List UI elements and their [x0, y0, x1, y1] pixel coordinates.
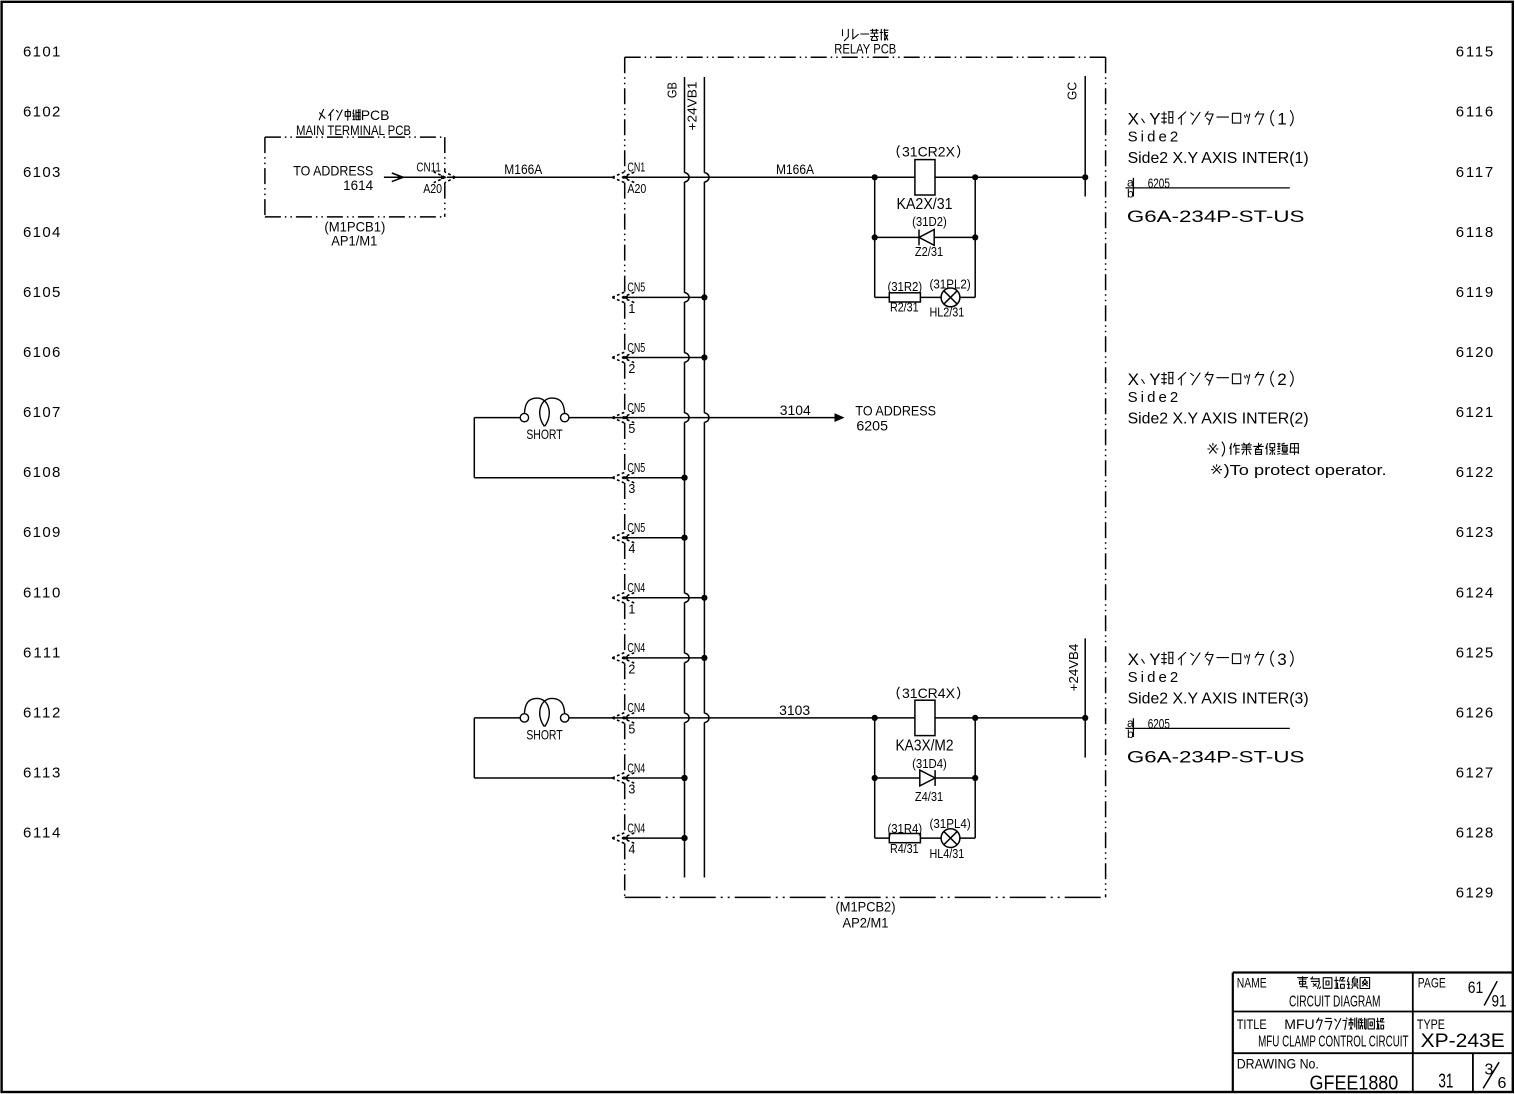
svg-text:5: 5 — [628, 422, 635, 436]
svg-text:Y: Y — [1149, 109, 1160, 128]
svg-text:MFU: MFU — [1284, 1016, 1314, 1032]
svg-text:GC: GC — [1064, 82, 1079, 100]
svg-text:6118: 6118 — [1456, 224, 1493, 241]
svg-text:CN4: CN4 — [627, 761, 645, 775]
wire CN4/1 to +24VB1 — [622, 597, 705, 599]
svg-text:b: b — [1127, 727, 1134, 741]
svg-text:31: 31 — [1438, 1071, 1453, 1093]
svg-text:TO ADDRESS: TO ADDRESS — [293, 162, 373, 178]
jumper SHORT between CN4/5 and CN4/3 — [474, 698, 622, 778]
connector CN5 pin 3 — [612, 461, 645, 496]
svg-text:CN4: CN4 — [627, 701, 645, 715]
svg-text:3: 3 — [628, 482, 635, 496]
svg-text:6205: 6205 — [1148, 716, 1170, 732]
note to protect operator — [1208, 442, 1387, 480]
relay coil U: (31CR2X) KA2X/31 — [897, 144, 960, 214]
wire relay2 branch left — [874, 718, 876, 838]
bus GB — [665, 77, 689, 878]
node row numbers 6101-6114 (left) — [23, 44, 60, 842]
title block TYPE field: XP-243E — [1417, 1016, 1505, 1052]
svg-text:TYPE: TYPE — [1417, 1016, 1445, 1032]
svg-text:2: 2 — [628, 662, 635, 676]
svg-text:6114: 6114 — [23, 825, 60, 842]
svg-text:CIRCUIT DIAGRAM: CIRCUIT DIAGRAM — [1289, 994, 1381, 1011]
svg-text:CN11: CN11 — [416, 161, 440, 175]
svg-text:MFU CLAMP CONTROL CIRCUIT: MFU CLAMP CONTROL CIRCUIT — [1258, 1033, 1409, 1050]
svg-text:1: 1 — [628, 302, 635, 316]
diode (31D2) Z2/31 — [872, 215, 979, 259]
connector CN1/A20 pin on relay PCB — [612, 161, 646, 196]
svg-text:1: 1 — [1277, 109, 1286, 128]
svg-text:6205: 6205 — [856, 418, 888, 434]
title block DRAWING No field: GFEE1880 31 3/6 — [1237, 1056, 1507, 1094]
svg-text:PCB: PCB — [361, 107, 390, 123]
wire 3104 to address 6205 — [622, 402, 843, 421]
svg-text:2: 2 — [628, 362, 635, 376]
svg-text:6119: 6119 — [1456, 284, 1493, 301]
text TO ADDRESS 6205 — [855, 403, 936, 434]
svg-text:6105: 6105 — [23, 284, 60, 301]
lamp (31PL4) HL4/31 — [930, 817, 971, 861]
title block NAME field: 電気回路線図 CIRCUIT DIAGRAM — [1237, 975, 1381, 1011]
connector CN4 pin 3 — [612, 761, 645, 796]
connector CN4 pin 5 — [612, 701, 645, 736]
svg-text:GB: GB — [665, 82, 680, 98]
wire CN5/1 to +24VB1 — [622, 296, 705, 298]
arrow to address 1614 — [384, 173, 441, 182]
svg-text:CN4: CN4 — [627, 581, 645, 595]
diode (31D4) Z4/31 — [872, 757, 979, 804]
wire CN4/4 to GB — [622, 835, 688, 841]
bus +24VB1 — [685, 77, 709, 878]
svg-text:SHORT: SHORT — [526, 426, 563, 442]
svg-text:Side2 X.Y AXIS INTER(3): Side2 X.Y AXIS INTER(3) — [1128, 691, 1309, 708]
svg-text:A20: A20 — [627, 182, 646, 196]
svg-text:)To protect operator.: )To protect operator. — [1224, 462, 1387, 479]
svg-text:6110: 6110 — [23, 584, 60, 601]
svg-text:1: 1 — [628, 602, 635, 616]
label リレー基板 RELAY PCB — [834, 29, 896, 56]
svg-text:TITLE: TITLE — [1237, 1016, 1267, 1032]
relay coil U: (31CR4X) KA3X/M2 — [896, 685, 960, 754]
svg-text:X: X — [1128, 109, 1139, 128]
wire relay1 branch right — [974, 177, 976, 297]
svg-text:Side2: Side2 — [1128, 669, 1179, 686]
svg-text:91: 91 — [1492, 992, 1507, 1011]
svg-text:(M1PCB2): (M1PCB2) — [836, 899, 896, 915]
svg-text:HL4/31: HL4/31 — [930, 847, 965, 861]
svg-text:6107: 6107 — [23, 404, 60, 421]
svg-text:+24VB1: +24VB1 — [685, 82, 700, 131]
connector CN4 pin 2 — [612, 641, 645, 676]
svg-text:6106: 6106 — [23, 344, 60, 361]
svg-text:6124: 6124 — [1456, 584, 1493, 601]
svg-text:(31PL2): (31PL2) — [930, 277, 971, 291]
svg-text:6115: 6115 — [1456, 44, 1493, 61]
svg-text:31CR2X: 31CR2X — [902, 144, 956, 160]
svg-text:CN1: CN1 — [627, 161, 645, 175]
resistor (31R2) R2/31 — [875, 280, 976, 315]
connector CN4 pin 4 — [612, 821, 645, 856]
svg-text:6128: 6128 — [1456, 825, 1493, 842]
svg-text:6120: 6120 — [1456, 344, 1493, 361]
svg-text:(31PL4): (31PL4) — [930, 817, 971, 831]
svg-text:6205: 6205 — [1148, 175, 1170, 191]
svg-text:CN5: CN5 — [627, 461, 645, 475]
svg-text:(31R4): (31R4) — [887, 822, 922, 836]
svg-text:6113: 6113 — [23, 765, 60, 782]
label (M1PCB2) AP2/M1 — [836, 899, 896, 931]
svg-text:M166A: M166A — [504, 161, 543, 177]
svg-text:(31D4): (31D4) — [912, 757, 947, 771]
svg-text:G6A-234P-ST-US: G6A-234P-ST-US — [1127, 207, 1305, 226]
net +24VB4 — [1066, 638, 1088, 757]
svg-text:6112: 6112 — [23, 704, 60, 721]
svg-text:6101: 6101 — [23, 44, 60, 61]
jumper SHORT between CN5/5 and CN5/3 — [474, 398, 622, 478]
svg-text:6123: 6123 — [1456, 524, 1493, 541]
wire relay2 branch right — [974, 718, 976, 838]
svg-text:6122: 6122 — [1456, 464, 1493, 481]
node row numbers 6115-6129 (right) — [1456, 44, 1493, 902]
svg-text:M166A: M166A — [776, 161, 815, 177]
svg-text:61: 61 — [1468, 978, 1484, 997]
svg-text:Z4/31: Z4/31 — [915, 790, 943, 804]
svg-text:6108: 6108 — [23, 464, 60, 481]
relay PCB board outline (M1PCB2) — [625, 57, 1106, 897]
svg-text:b: b — [1127, 186, 1134, 200]
svg-text:31CR4X: 31CR4X — [902, 685, 956, 701]
label メイン中継PCB MAIN TERMINAL PCB — [296, 107, 411, 138]
svg-text:Y: Y — [1149, 370, 1160, 389]
wire CN4/3 to GB — [622, 775, 688, 781]
svg-text:6104: 6104 — [23, 224, 60, 241]
wire relay1 branch left — [874, 177, 876, 297]
wire CN5/4 to GB — [622, 535, 688, 541]
connector CN5 pin 4 — [612, 521, 645, 556]
svg-text:Side2 X.Y AXIS INTER(1): Side2 X.Y AXIS INTER(1) — [1128, 150, 1309, 167]
svg-text:6129: 6129 — [1456, 885, 1493, 902]
svg-text:A20: A20 — [423, 182, 442, 196]
note X,Y axis interlock (2) Side2 — [1128, 370, 1309, 428]
wire M166A — [447, 161, 612, 177]
svg-text:GFEE1880: GFEE1880 — [1310, 1073, 1399, 1094]
svg-text:Side2: Side2 — [1128, 129, 1179, 146]
wire CN5/2 to +24VB1 — [622, 357, 705, 359]
svg-text:6125: 6125 — [1456, 644, 1493, 661]
svg-text:6117: 6117 — [1456, 164, 1493, 181]
svg-text:KA3X/M2: KA3X/M2 — [896, 737, 954, 754]
svg-text:5: 5 — [628, 722, 635, 736]
svg-text:3104: 3104 — [780, 402, 811, 418]
svg-text:X: X — [1128, 370, 1139, 389]
svg-text:CN4: CN4 — [627, 641, 645, 655]
svg-text:4: 4 — [628, 843, 635, 857]
svg-text:(31R2): (31R2) — [887, 280, 922, 294]
svg-text:DRAWING No.: DRAWING No. — [1237, 1056, 1319, 1072]
wire CN4/2 to +24VB1 — [622, 657, 705, 659]
svg-text:MAIN TERMINAL PCB: MAIN TERMINAL PCB — [296, 122, 411, 138]
junction dots — [872, 174, 878, 180]
svg-text:Y: Y — [1149, 650, 1160, 669]
svg-text:AP1/M1: AP1/M1 — [331, 233, 377, 249]
svg-text:PAGE: PAGE — [1418, 975, 1446, 991]
svg-text:RELAY PCB: RELAY PCB — [834, 41, 896, 57]
svg-text:6126: 6126 — [1456, 704, 1493, 721]
note X,Y axis interlock (3) Side2 — [1126, 650, 1309, 767]
svg-text:CN5: CN5 — [627, 521, 645, 535]
svg-text:SHORT: SHORT — [526, 726, 563, 742]
lamp (31PL2) HL2/31 — [930, 277, 971, 319]
svg-text:6116: 6116 — [1456, 104, 1493, 121]
svg-text:3: 3 — [1484, 1061, 1493, 1078]
svg-text:AP2/M1: AP2/M1 — [843, 915, 889, 931]
svg-text:1614: 1614 — [343, 177, 373, 193]
connector CN5 pin 2 — [612, 341, 645, 376]
svg-text:6127: 6127 — [1456, 765, 1493, 782]
svg-text:Side2: Side2 — [1128, 389, 1179, 406]
title block PAGE field: 61/91 — [1418, 975, 1507, 1011]
wire M166A inside relay pcb — [622, 161, 1085, 180]
svg-text:(31D2): (31D2) — [912, 215, 947, 229]
title block — [1233, 973, 1513, 1093]
svg-text:KA2X/31: KA2X/31 — [897, 196, 953, 213]
wire 3103 — [622, 702, 1085, 721]
net GC — [1064, 76, 1088, 197]
text TO ADDRESS 1614 — [293, 162, 373, 193]
connector CN11/A20 pin on main PCB — [416, 161, 455, 196]
svg-text:6121: 6121 — [1456, 404, 1493, 421]
svg-text:R2/31: R2/31 — [890, 301, 919, 315]
svg-text:6103: 6103 — [23, 164, 60, 181]
svg-text:Z2/31: Z2/31 — [915, 245, 943, 259]
svg-text:CN4: CN4 — [627, 821, 645, 835]
svg-text:HL2/31: HL2/31 — [930, 306, 965, 320]
svg-text:6109: 6109 — [23, 524, 60, 541]
main terminal PCB box (M1PCB1) — [265, 137, 445, 217]
svg-text:XP-243E: XP-243E — [1421, 1031, 1505, 1052]
svg-text:6: 6 — [1497, 1075, 1506, 1092]
svg-text:CN5: CN5 — [627, 401, 645, 415]
title block TITLE field: MFUクランプ制御回路 MFU CLAMP CONTROL CIRCUIT — [1237, 1016, 1409, 1051]
svg-text:3: 3 — [628, 783, 635, 797]
svg-text:+24VB4: +24VB4 — [1066, 644, 1081, 692]
connector CN5 pin 5 — [612, 401, 645, 436]
svg-text:2: 2 — [1277, 370, 1286, 389]
svg-text:TO ADDRESS: TO ADDRESS — [855, 403, 936, 419]
note X,Y axis interlock (1) Side2 — [1126, 109, 1309, 226]
svg-text:6102: 6102 — [23, 104, 60, 121]
svg-text:X: X — [1128, 650, 1139, 669]
resistor (31R4) R4/31 — [875, 822, 976, 856]
svg-text:3103: 3103 — [779, 702, 810, 718]
svg-text:R4/31: R4/31 — [890, 842, 919, 856]
svg-text:CN5: CN5 — [627, 341, 645, 355]
label (M1PCB1) AP1/M1 — [324, 219, 385, 249]
svg-text:G6A-234P-ST-US: G6A-234P-ST-US — [1127, 748, 1305, 767]
svg-text:CN5: CN5 — [627, 281, 645, 295]
connector CN5 pin 1 — [612, 281, 645, 316]
svg-text:3: 3 — [1277, 650, 1286, 669]
svg-text:NAME: NAME — [1237, 975, 1267, 991]
connector CN4 pin 1 — [612, 581, 645, 616]
wire CN5/3 to GB — [622, 475, 688, 481]
svg-text:4: 4 — [628, 542, 635, 556]
svg-text:Side2 X.Y AXIS INTER(2): Side2 X.Y AXIS INTER(2) — [1128, 411, 1309, 428]
